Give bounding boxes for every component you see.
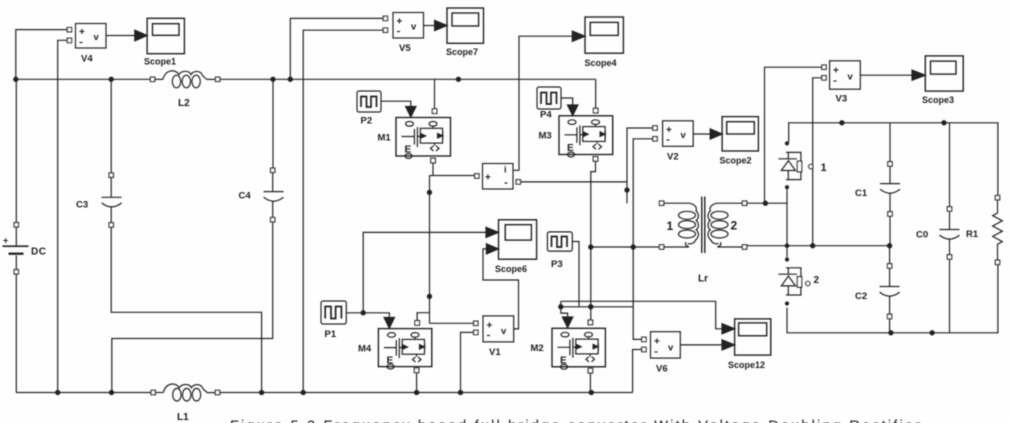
- wire V1 minus to bottom bus: [458, 332, 473, 394]
- wire current block output: [521, 181, 628, 183]
- scope Scope3: [925, 56, 963, 91]
- voltage measurement V6: [642, 332, 681, 358]
- svg-text:2: 2: [731, 219, 738, 233]
- capacitor C1: [880, 123, 900, 246]
- wire V1 plus from leg: [430, 322, 474, 324]
- pulse generator P1: [321, 301, 346, 324]
- wire rectifier top rail: [789, 123, 998, 198]
- svg-text:V4: V4: [81, 54, 93, 65]
- label P2: [361, 116, 373, 127]
- junction node M3 leg at primary: [589, 245, 593, 249]
- mosfet M2: [552, 328, 605, 369]
- svg-text:C4: C4: [239, 191, 252, 202]
- junction node on bus near M1: [456, 77, 460, 81]
- inductor L2: [150, 71, 220, 88]
- svg-text:P4: P4: [540, 110, 552, 121]
- scope Scope2: [722, 117, 758, 151]
- wire C3 bottom to bottom bus: [111, 227, 261, 392]
- wire secondary bottom mid rail: [747, 245, 890, 247]
- svg-text:P2: P2: [361, 116, 373, 127]
- wire gate net to M2: [561, 301, 573, 327]
- label C4: [239, 191, 252, 202]
- scope Scope6: [499, 220, 537, 259]
- label V5: [399, 43, 411, 54]
- wire M2 drain port: [588, 320, 593, 325]
- label C0: [916, 230, 928, 241]
- wire V2 minus down: [633, 139, 653, 340]
- svg-text:+: +: [397, 17, 403, 28]
- caption text: [230, 419, 920, 423]
- label M4: [358, 344, 372, 355]
- label Lr: [698, 274, 708, 285]
- label Scope3: [922, 95, 954, 105]
- label V4: [81, 54, 93, 65]
- svg-text:M4: M4: [358, 344, 372, 355]
- svg-text:Scope1: Scope1: [144, 57, 176, 67]
- svg-text:Scope7: Scope7: [446, 47, 478, 57]
- wire gate net lower horizontal: [561, 306, 633, 308]
- scope Scope1: [147, 18, 184, 53]
- capacitor C3: [102, 79, 122, 227]
- svg-text:C0: C0: [916, 230, 928, 241]
- junction node V3 plus tap: [763, 201, 767, 205]
- junction node V3 minus tap: [811, 244, 815, 248]
- scope Scope12: [735, 319, 771, 355]
- label D2: [814, 275, 820, 286]
- diode D1: [778, 141, 813, 189]
- svg-text:1: 1: [667, 219, 674, 233]
- label V1: [489, 347, 501, 358]
- label C1: [855, 188, 868, 199]
- junction node bus bottom V4minus: [56, 390, 60, 394]
- svg-text:v: v: [94, 32, 100, 43]
- DC source: [3, 79, 29, 392]
- junction node bottom rail a: [889, 331, 893, 335]
- wire current block to Scope4: [513, 31, 585, 170]
- wire V4 minus down left side: [58, 40, 67, 392]
- svg-text:C1: C1: [855, 188, 868, 199]
- label Scope6: [495, 264, 527, 274]
- label M1: [378, 133, 392, 144]
- capacitor C0: [940, 123, 960, 333]
- label Scope1: [144, 57, 176, 67]
- wire M1 source to leg midpoint: [430, 163, 475, 323]
- svg-text:Scope4: Scope4: [585, 58, 617, 68]
- svg-text:2: 2: [814, 275, 820, 286]
- svg-text:V5: V5: [399, 43, 411, 54]
- diode D2: [778, 257, 810, 305]
- mosfet M1: [396, 118, 451, 159]
- wire Scope6 top input from P1 net: [363, 227, 498, 312]
- junction node bus bottom V5 minus: [301, 390, 305, 394]
- svg-text:v: v: [848, 72, 854, 83]
- svg-text:P3: P3: [551, 259, 563, 270]
- wire bottom bus: [16, 392, 632, 394]
- wire V3 minus tap: [813, 78, 822, 246]
- svg-text:Figure 5.2 Frequency based ful: Figure 5.2 Frequency based full bridge c…: [230, 419, 920, 423]
- wire top bus: [16, 78, 596, 80]
- wire M3 drain from bus: [593, 79, 598, 113]
- junction node V5 plus: [288, 77, 292, 81]
- wire M1 drain from bus: [432, 79, 437, 113]
- pulse generator P3: [547, 232, 572, 251]
- wire M2 source to bottom bus: [589, 373, 593, 395]
- junction node top rail a: [840, 121, 844, 125]
- svg-text:DC: DC: [31, 247, 46, 258]
- junction node top rail b: [942, 121, 946, 125]
- scope Scope4: [585, 17, 623, 53]
- junction node on top bus left: [14, 77, 18, 81]
- label winding 2: [731, 219, 738, 233]
- junction node P1 Scope6 tap: [361, 311, 365, 315]
- wire arrow V2 to Scope2: [693, 129, 722, 139]
- svg-text:C3: C3: [76, 200, 88, 211]
- svg-text:M3: M3: [539, 131, 552, 142]
- wire M3 leg to primary bottom: [591, 246, 660, 248]
- current measurement block: [475, 164, 521, 190]
- pulse generator P4: [537, 87, 561, 109]
- junction node bus bottom C4 return: [109, 390, 113, 394]
- label V2: [667, 152, 679, 163]
- wire gate signal to Scope12: [561, 301, 735, 334]
- junction node gate net: [559, 305, 563, 309]
- svg-text:i: i: [504, 165, 507, 175]
- svg-text:R1: R1: [966, 229, 979, 240]
- resistor R1: [993, 196, 1003, 265]
- svg-text:L2: L2: [178, 98, 190, 109]
- svg-text:E: E: [560, 355, 567, 366]
- label L1: [177, 412, 189, 423]
- voltage measurement V5: [383, 13, 423, 39]
- wire V5 minus to bottom bus: [303, 30, 383, 392]
- svg-text:+: +: [487, 321, 493, 332]
- wire arrow V3 to Scope3: [860, 70, 925, 80]
- label P1: [325, 329, 337, 340]
- label V3: [836, 94, 848, 105]
- svg-text:E: E: [405, 145, 412, 156]
- junction node crossing D leg: [785, 244, 788, 247]
- wire V5 plus to top bus: [290, 18, 383, 79]
- label M2: [531, 343, 544, 354]
- junction node M3 leg at gate line: [589, 305, 593, 309]
- wire V4 plus to DC rail: [16, 30, 67, 80]
- mosfet M3: [559, 116, 613, 157]
- wire V6 minus to bottom bus: [633, 350, 642, 393]
- svg-text:V2: V2: [667, 152, 679, 163]
- port M4 source: [414, 368, 419, 373]
- port M3 source: [593, 157, 598, 162]
- voltage measurement V1: [474, 316, 514, 342]
- label C2: [855, 291, 867, 302]
- svg-text:Scope2: Scope2: [720, 156, 752, 166]
- label P3: [551, 259, 563, 270]
- svg-text:P1: P1: [325, 329, 337, 340]
- wire M4 source to bottom bus: [415, 373, 419, 395]
- voltage measurement V2: [653, 121, 693, 147]
- junction node leg lower: [427, 294, 431, 298]
- svg-text:Scope12: Scope12: [728, 360, 765, 370]
- junction node C3 top: [109, 77, 113, 81]
- wire V3 plus tap: [765, 67, 822, 203]
- svg-text:+: +: [833, 66, 839, 77]
- junction node bus bottom C3 return: [260, 390, 264, 394]
- wire arrow V5 to Scope7: [424, 20, 448, 30]
- svg-text:+: +: [79, 27, 85, 38]
- wire secondary top to rectifier: [747, 189, 787, 257]
- label DC: [31, 247, 46, 258]
- capacitor C2: [880, 246, 900, 333]
- label Scope2: [720, 156, 752, 166]
- pulse generator P2: [357, 91, 381, 112]
- wire C4 bottom to bottom bus: [112, 222, 273, 393]
- transformer Lr: [659, 197, 746, 254]
- svg-text:E: E: [567, 143, 574, 154]
- label R1: [966, 229, 979, 240]
- label P4: [540, 110, 552, 121]
- svg-text:Scope3: Scope3: [922, 95, 954, 105]
- svg-text:Scope6: Scope6: [495, 264, 527, 274]
- wire arrow V4 to Scope1: [106, 30, 147, 41]
- junction node on leg: [427, 190, 431, 194]
- voltage measurement V4: [67, 24, 106, 49]
- label L2: [178, 98, 190, 109]
- svg-text:v: v: [501, 326, 507, 337]
- wire arrow V6 to Scope12: [680, 340, 734, 350]
- svg-text:+: +: [654, 337, 660, 348]
- wire P3 output down: [572, 242, 579, 307]
- svg-text:+: +: [3, 236, 8, 246]
- wire M4 drain from leg: [415, 313, 430, 326]
- port M2 source: [588, 368, 593, 373]
- label Scope4: [585, 58, 617, 68]
- port M1 source: [431, 158, 436, 163]
- svg-text:E: E: [387, 356, 394, 367]
- svg-text:C2: C2: [855, 291, 867, 302]
- wire M3 source down to M2 drain: [591, 161, 596, 320]
- label Scope12: [728, 360, 765, 370]
- voltage measurement V3: [822, 61, 861, 89]
- svg-text:M2: M2: [531, 343, 544, 354]
- wire rectifier bottom rail: [787, 262, 998, 333]
- junction node bottom rail b: [930, 331, 934, 335]
- label D1: [821, 162, 827, 174]
- label C3: [76, 200, 88, 211]
- scope Scope7: [447, 8, 484, 43]
- wire P2 to M1 gate: [381, 101, 416, 117]
- label winding 1: [667, 219, 674, 233]
- wire V2 plus to primary top: [627, 128, 653, 203]
- svg-text:1: 1: [821, 162, 827, 174]
- svg-text:L1: L1: [177, 412, 189, 423]
- mosfet M4: [378, 329, 431, 369]
- wire P1 to M4 gate: [346, 313, 394, 328]
- svg-text:v: v: [668, 343, 674, 354]
- svg-text:V3: V3: [836, 94, 848, 105]
- svg-text:+: +: [666, 125, 672, 136]
- svg-text:+: +: [485, 173, 491, 184]
- svg-text:V6: V6: [656, 364, 668, 375]
- inductor L1: [151, 384, 220, 401]
- junction node V2 plus line: [625, 188, 629, 192]
- wire Scope6 bottom input from V1: [483, 244, 519, 329]
- label Scope7: [446, 47, 478, 57]
- wire P4 to M3 gate: [561, 98, 578, 116]
- svg-text:V1: V1: [489, 347, 501, 358]
- svg-text:Lr: Lr: [698, 274, 708, 285]
- label V6: [656, 364, 668, 375]
- capacitor C4: [264, 79, 284, 222]
- svg-text:M1: M1: [378, 133, 392, 144]
- junction node C4 top: [271, 77, 275, 81]
- label M3: [539, 131, 552, 142]
- svg-text:v: v: [681, 130, 687, 141]
- junction node C1 C2 midpoint: [888, 244, 892, 248]
- junction node V2 minus at primary bottom: [631, 245, 635, 249]
- svg-text:v: v: [411, 22, 417, 33]
